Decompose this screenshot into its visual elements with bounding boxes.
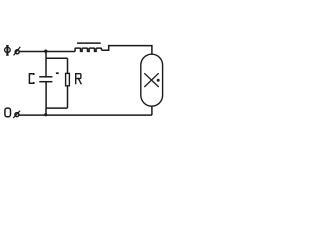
lamp electrode X stroke 1 [144, 73, 158, 87]
node: junction dot top [44, 50, 47, 53]
resistor R body [66, 73, 70, 85]
inductor core line [77, 42, 101, 44]
capacitor C lower lead [45, 82, 47, 108]
resistor R upper lead [67, 58, 69, 73]
capacitor C upper lead [45, 58, 47, 77]
wire: bottom from terminal to lamp [19, 114, 152, 116]
wire: top bar of C-R pair [46, 57, 68, 59]
wire: lamp bottom lead [151, 106, 153, 115]
label C [29, 74, 33, 84]
terminal circle bottom-left [15, 113, 19, 117]
lamp EL capsule (gas-discharge lamp) [141, 54, 163, 106]
lamp gas dot [157, 79, 160, 82]
wire: inductor exit, step up, run to lamp, drop to lamp top [102, 46, 152, 55]
resistor R lower lead [67, 86, 69, 108]
lamp electrode X stroke 2 [144, 73, 158, 87]
capacitor C plate 2 [39, 81, 52, 83]
polarity minus mark [56, 72, 59, 74]
wire: stub from bottom bar to bottom wire [45, 108, 47, 115]
wire: top from terminal to inductor [19, 51, 75, 53]
wire: stub from top wire down to parallel pair [45, 51, 47, 58]
label R [76, 74, 82, 85]
terminal circle top-left [15, 50, 19, 54]
node: junction dot bottom [44, 113, 47, 116]
terminal slash bottom-left [13, 111, 20, 118]
label Ф (phase input) [5, 45, 11, 55]
inductor L (choke) winding bumps [75, 48, 101, 51]
wire: bottom bar of C-R pair [46, 107, 68, 109]
label 0 (neutral input) [5, 108, 11, 117]
capacitor C plate 1 [39, 76, 52, 78]
terminal slash top-left [14, 47, 21, 56]
